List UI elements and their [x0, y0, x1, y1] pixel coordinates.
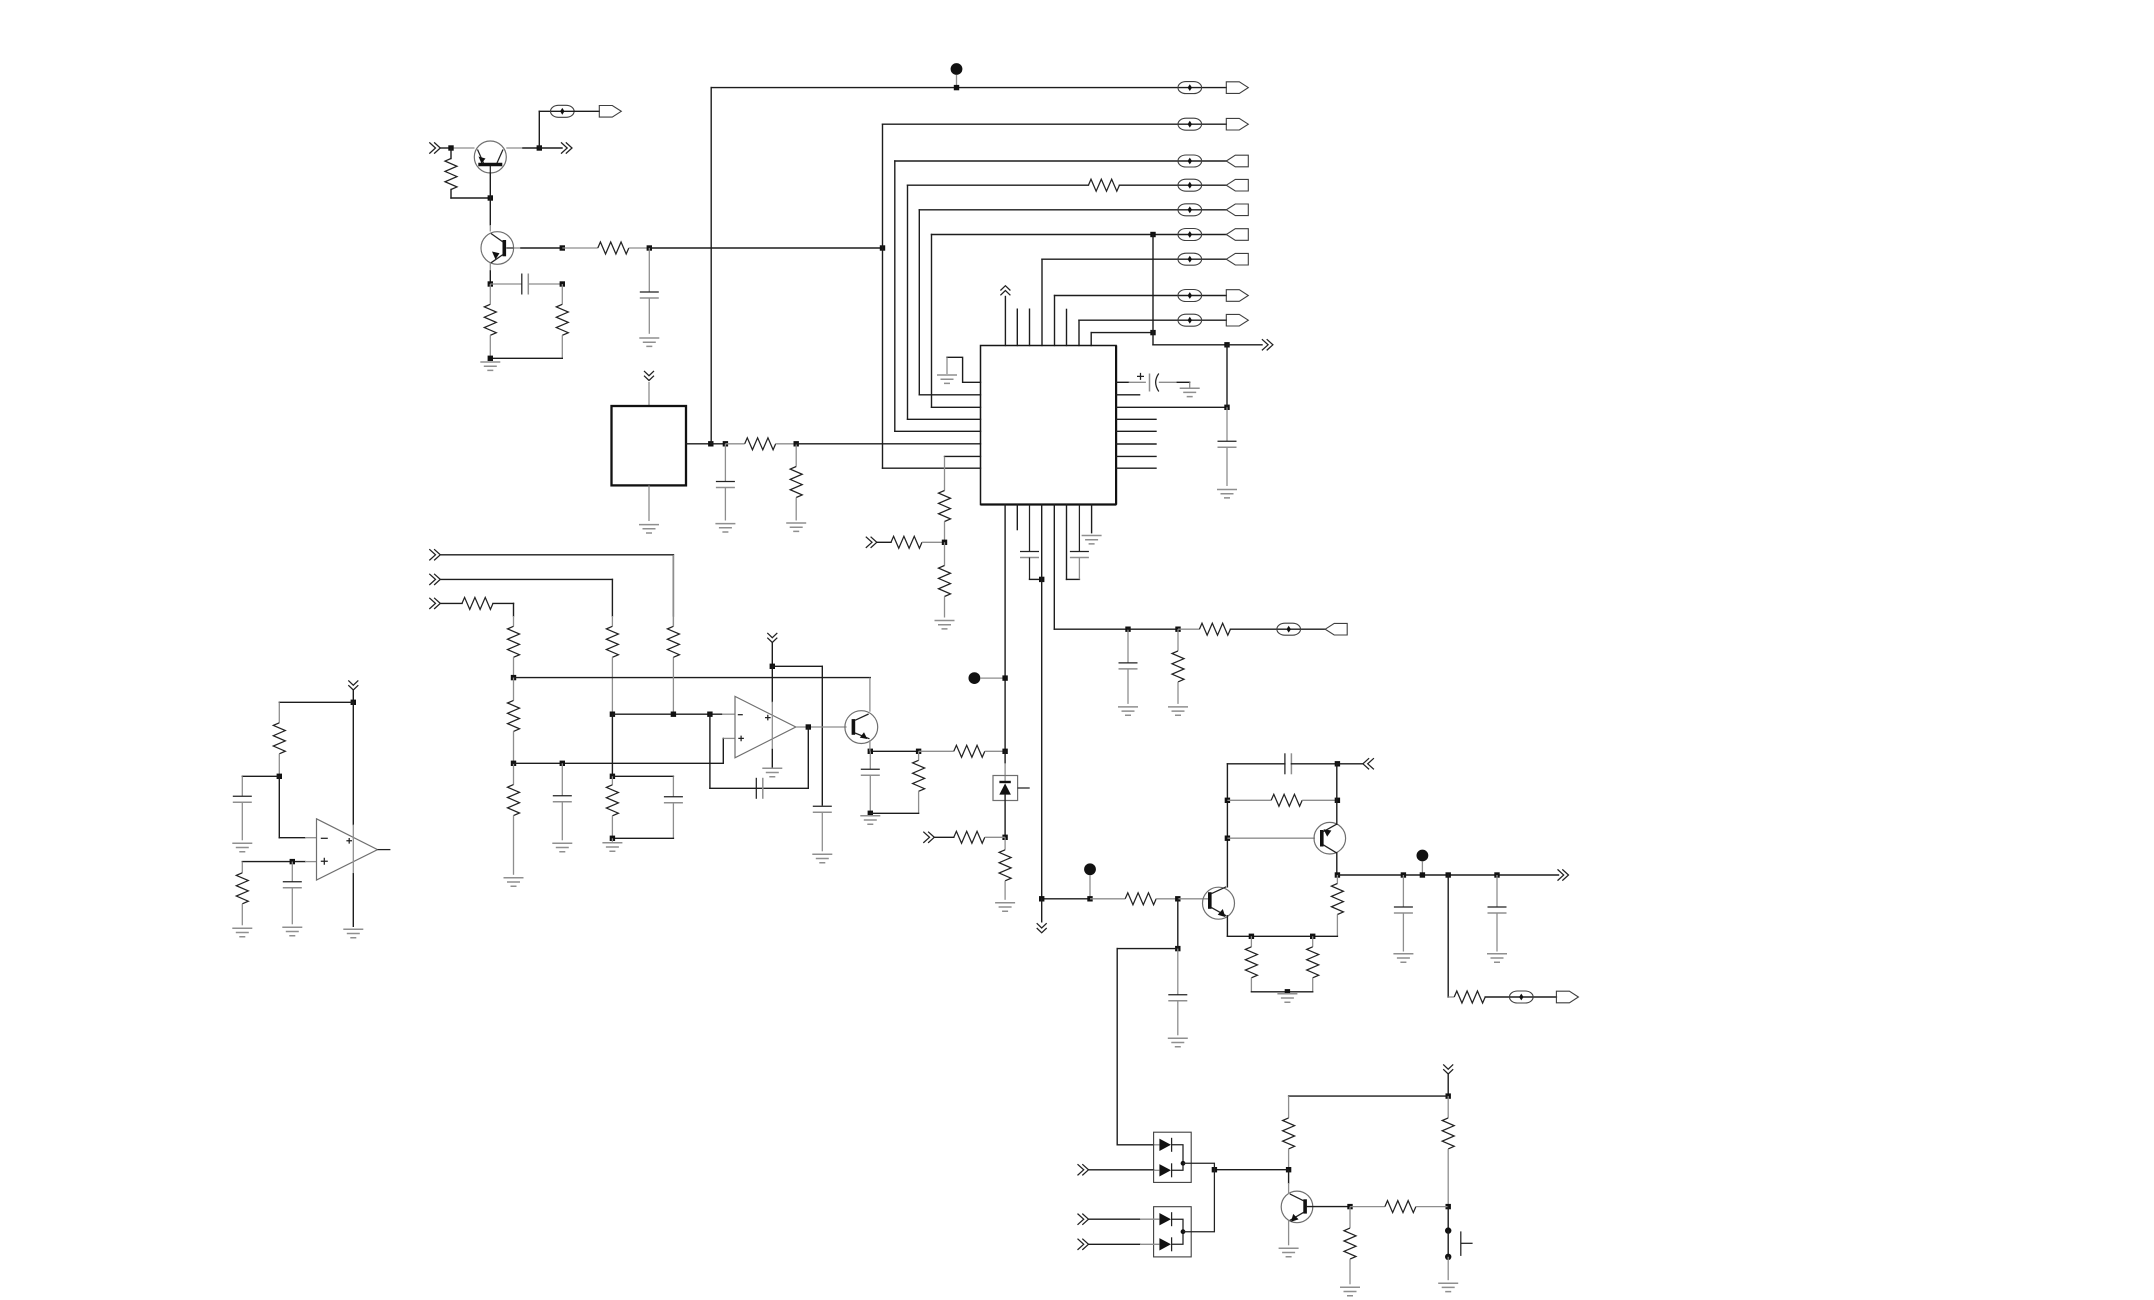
junction — [1494, 872, 1499, 877]
ground — [1393, 954, 1413, 962]
wire top row — [711, 87, 1226, 89]
node marker — [1084, 863, 1096, 875]
output stub — [378, 849, 391, 851]
Q6 emitter — [1288, 1220, 1290, 1245]
plus input wire — [242, 861, 305, 863]
ground — [639, 338, 659, 346]
resistor R22 — [278, 702, 280, 723]
wire cap pair — [1066, 505, 1068, 580]
junction — [1446, 872, 1451, 877]
wire pin row — [945, 455, 981, 457]
junction — [1401, 872, 1406, 877]
wire emitter row — [870, 750, 918, 752]
wire tap down — [1152, 235, 1154, 345]
bus wire row8 — [1054, 296, 1056, 346]
ground — [1168, 707, 1188, 715]
capacitor C8 — [1127, 629, 1129, 663]
net tag oval — [1510, 991, 1534, 1003]
junction — [1347, 1204, 1352, 1209]
wire — [611, 714, 613, 776]
junction — [537, 145, 542, 150]
resistor R10 — [1178, 628, 1199, 630]
wire — [612, 775, 673, 777]
wire Q2 emitter — [489, 263, 491, 271]
ground — [786, 523, 806, 531]
junction — [1249, 934, 1254, 939]
input port >> — [866, 537, 877, 548]
wire to bus — [649, 247, 882, 249]
diode pack D3 — [1154, 1207, 1192, 1257]
ground — [1487, 954, 1507, 962]
Q3 collector — [869, 678, 871, 712]
wire tag to port — [574, 110, 599, 112]
ground — [232, 928, 252, 936]
capacitor C18 — [1402, 875, 1404, 907]
ground — [1438, 1283, 1458, 1291]
junction — [954, 85, 959, 90]
ground — [1118, 707, 1138, 715]
junction — [1150, 330, 1155, 335]
power symbol — [348, 680, 358, 690]
ground — [504, 878, 524, 886]
port connector — [1325, 623, 1347, 635]
ground — [860, 816, 880, 824]
input wire 2 — [440, 578, 612, 580]
wire node to Q2 — [489, 198, 491, 225]
junction — [290, 859, 295, 864]
power symbol — [1041, 899, 1043, 922]
junction — [916, 749, 921, 754]
resistor chain — [944, 456, 946, 490]
resistor R30 — [1288, 1096, 1290, 1118]
output rail — [1337, 874, 1558, 876]
resistor R18 — [513, 763, 515, 784]
junction — [1446, 1093, 1451, 1098]
junction — [723, 441, 728, 446]
ground — [343, 929, 363, 937]
bus wire row4 with resistor — [907, 185, 909, 419]
wire Q1 collector right — [506, 147, 523, 149]
input port >> — [1078, 1164, 1089, 1175]
resistor R19 — [672, 657, 674, 714]
op-amp U2 — [735, 696, 796, 757]
ground — [995, 903, 1015, 911]
junction — [1212, 1167, 1217, 1172]
junction — [1225, 798, 1230, 803]
switch S1 — [1447, 1207, 1449, 1231]
transistor Q6 — [1281, 1191, 1313, 1223]
Q5 emitter up — [1336, 764, 1338, 825]
ground — [552, 843, 572, 851]
plus input rail — [514, 762, 724, 764]
bus wire row7 — [1041, 259, 1043, 345]
bus wire row3 — [894, 161, 896, 431]
wire to port — [1227, 344, 1262, 346]
wire to minus — [278, 776, 280, 837]
main rail down — [1041, 505, 1043, 899]
transistor Q3 — [845, 711, 878, 744]
wire — [1177, 899, 1179, 949]
IC pin stub — [1116, 394, 1140, 396]
wire — [1089, 1169, 1154, 1171]
net tag oval — [1178, 82, 1202, 94]
ground — [762, 768, 782, 776]
resistor R5 — [725, 443, 744, 445]
input port >> — [429, 549, 440, 560]
ground — [480, 362, 500, 370]
wire to port — [1337, 763, 1363, 765]
capacitor C1 — [648, 248, 650, 292]
resistor R8 — [944, 542, 946, 565]
junction — [1224, 405, 1229, 410]
bottom rail — [1227, 935, 1337, 937]
IC pin stub — [1029, 309, 1031, 345]
lead to box — [648, 382, 650, 406]
wire — [772, 665, 822, 667]
resistor R1 — [450, 148, 452, 159]
port connector — [1226, 82, 1248, 94]
wire down — [1447, 875, 1449, 997]
junction — [488, 281, 493, 286]
input port >> — [1078, 1214, 1089, 1225]
resistor R31 — [1447, 1096, 1449, 1118]
resistor R20 — [611, 776, 613, 785]
ground — [1189, 382, 1191, 388]
ground — [1279, 1248, 1299, 1256]
resistor R16 — [508, 626, 520, 657]
wire up to tag — [538, 111, 540, 148]
Q4 collector — [1226, 764, 1228, 887]
input port >> — [923, 832, 934, 843]
junction — [1175, 627, 1180, 632]
wire — [1089, 1243, 1141, 1245]
resistor R11 — [919, 750, 954, 752]
resistor R3 — [489, 284, 491, 304]
transistor Q1 — [474, 141, 506, 173]
resistor R29 — [1448, 996, 1454, 998]
wire — [1226, 345, 1228, 408]
IC pin stub — [1066, 309, 1068, 345]
junction — [806, 724, 811, 729]
junction — [794, 441, 799, 446]
wire — [279, 701, 353, 703]
resistor R6 — [795, 444, 797, 467]
junction — [1039, 577, 1044, 582]
top feedback row — [1227, 763, 1285, 765]
capacitor C6 — [1029, 505, 1031, 552]
capacitor C19 — [1496, 875, 1498, 907]
wire rail — [1042, 898, 1090, 900]
wire box output — [686, 443, 711, 445]
base wire — [1178, 898, 1208, 900]
node marker — [1417, 850, 1429, 862]
junction — [1125, 627, 1130, 632]
wire bus VCC — [710, 88, 712, 444]
IC U1 — [981, 346, 1117, 505]
junction — [868, 749, 873, 754]
junction — [868, 811, 873, 816]
power symbol — [767, 633, 777, 643]
ground — [935, 621, 955, 629]
wire — [1214, 1169, 1288, 1171]
resistor R33 — [1349, 1207, 1351, 1229]
ground pin wire — [947, 357, 981, 382]
wire from cap node — [1116, 949, 1118, 1145]
wire input to Q1 base — [440, 147, 451, 149]
wire pin down — [1053, 505, 1055, 630]
capacitor C10 — [672, 776, 674, 797]
resistor R14 — [611, 579, 613, 616]
junction — [1002, 675, 1007, 680]
capacitor C14 — [241, 776, 243, 796]
port connector — [1556, 991, 1578, 1003]
junction — [511, 761, 516, 766]
junction — [1310, 934, 1315, 939]
capacitor C16 — [1177, 949, 1179, 995]
lead box to ground — [648, 485, 650, 521]
IC pin stub ground — [1091, 505, 1093, 533]
junction — [277, 774, 282, 779]
capacitor C11 — [821, 666, 823, 805]
net tag oval — [551, 105, 575, 117]
resistor R23 — [241, 862, 243, 873]
wire — [1089, 1218, 1141, 1220]
junction — [1420, 872, 1425, 877]
IC pin stub — [1016, 505, 1018, 530]
junction — [488, 195, 493, 200]
wire emitter rail — [490, 357, 562, 359]
junction — [1285, 989, 1290, 994]
junction — [707, 712, 712, 717]
junction — [560, 761, 565, 766]
wire long rail — [514, 677, 871, 679]
input port >> — [1078, 1239, 1089, 1250]
junction — [1225, 836, 1230, 841]
power symbol — [1443, 1064, 1453, 1074]
ground — [937, 375, 957, 383]
input wire 3 — [440, 602, 462, 604]
junction — [1446, 1204, 1451, 1209]
capacitor C9 — [561, 763, 563, 796]
feedback wire — [807, 727, 809, 788]
resistor R17 — [513, 678, 515, 701]
power pin — [1004, 297, 1006, 346]
junction — [942, 540, 947, 545]
wire — [1128, 628, 1178, 630]
IC pin stub — [1016, 309, 1018, 345]
resistor R4 — [561, 284, 563, 304]
wire — [612, 837, 673, 839]
junction — [1335, 872, 1340, 877]
node marker — [969, 672, 981, 684]
IC right pin stubs — [1116, 418, 1156, 420]
wire down — [513, 603, 515, 616]
junction — [610, 774, 615, 779]
feedback wire — [710, 787, 756, 789]
junction — [1286, 1167, 1291, 1172]
junction — [770, 664, 775, 669]
bus wire row2 — [882, 124, 884, 468]
transistor Q5 pnp — [1314, 822, 1346, 854]
wire down — [672, 555, 674, 616]
junction — [1002, 835, 1007, 840]
junction — [448, 145, 453, 150]
resistor R15 — [462, 597, 493, 609]
junction — [1175, 896, 1180, 901]
capacitor C17 — [1284, 753, 1286, 774]
wire — [711, 443, 726, 445]
ground — [232, 843, 252, 851]
power wire — [771, 643, 773, 667]
output port — [599, 106, 621, 118]
resistor R21 — [918, 751, 920, 760]
capacitor C15 — [291, 862, 293, 882]
junction — [1150, 232, 1155, 237]
junction — [351, 700, 356, 705]
ground — [1168, 1038, 1188, 1046]
junction — [511, 675, 516, 680]
bus wire row6 — [931, 235, 933, 408]
ground — [1217, 490, 1237, 498]
power symbol — [644, 371, 654, 381]
resistor R12 — [934, 836, 954, 838]
junction — [647, 245, 652, 250]
zener diode D1 — [1004, 751, 1006, 763]
wire — [870, 812, 918, 814]
resistor R27 — [1250, 936, 1252, 947]
wire — [1251, 991, 1312, 993]
resistor R26 — [1336, 875, 1338, 884]
junction — [1335, 798, 1340, 803]
resistor R32 — [1350, 1206, 1385, 1208]
output wire — [796, 726, 847, 728]
wire Q1 emitter down — [489, 173, 491, 198]
ground — [715, 524, 735, 532]
net tag oval — [1277, 623, 1301, 635]
Q6 collector — [1288, 1170, 1290, 1183]
ground — [639, 525, 659, 533]
capacitor C7 — [1078, 505, 1080, 552]
ground — [1340, 1287, 1360, 1295]
op-amp power pins — [352, 702, 354, 824]
wire Q2 base right — [514, 247, 522, 249]
input port >> — [429, 142, 440, 153]
main net down — [1004, 505, 1006, 752]
wire inner bus — [1090, 333, 1092, 346]
ground — [812, 854, 832, 862]
junction — [1039, 896, 1044, 901]
junction — [671, 712, 676, 717]
junction — [1175, 946, 1180, 951]
oscillator box X1 — [612, 406, 687, 485]
node marker — [951, 63, 963, 75]
output port >> — [561, 142, 572, 153]
junction — [708, 441, 713, 446]
junction — [1335, 761, 1340, 766]
wire to port >> — [539, 147, 562, 149]
input port >> — [429, 574, 440, 585]
junction — [1002, 749, 1007, 754]
capacitor C13 — [869, 751, 871, 769]
base wire — [1307, 1206, 1350, 1208]
polarized capacitor C4 — [1116, 381, 1129, 383]
power wire — [352, 690, 354, 702]
ground — [1082, 536, 1102, 544]
capacitor C2 — [490, 283, 522, 285]
junction — [880, 245, 885, 250]
resistor R25 — [1227, 799, 1271, 801]
power wire — [1447, 1074, 1449, 1096]
op-amp U3 — [317, 819, 378, 880]
junction — [610, 836, 615, 841]
capacitor C12 — [755, 778, 757, 799]
junction — [1087, 896, 1092, 901]
resistor R24 — [1090, 898, 1125, 900]
input port << — [1363, 758, 1374, 769]
bus wire row5 — [918, 210, 920, 395]
minus input wire — [612, 713, 722, 715]
base wire Q5 — [1227, 837, 1315, 839]
input wire 1 — [440, 554, 673, 556]
ground — [282, 927, 302, 935]
junction — [560, 281, 565, 286]
ground lead — [946, 357, 948, 374]
resistor R28 — [1312, 936, 1314, 947]
bus wire row9 — [1078, 320, 1080, 345]
resistor R13 — [1004, 837, 1006, 850]
wire — [1291, 763, 1337, 765]
diode pack D2 — [1154, 1132, 1192, 1182]
capacitor C5 — [1226, 407, 1228, 441]
wire to IC pin — [796, 443, 980, 445]
wire R1 to node — [451, 197, 490, 199]
output port >> — [1558, 869, 1569, 880]
wire — [1289, 1095, 1449, 1097]
Q3 emitter — [869, 740, 871, 751]
junction — [610, 712, 615, 717]
output port >> — [1262, 339, 1273, 350]
resistor R7 — [877, 541, 891, 543]
junction — [488, 356, 493, 361]
IC left pin wires — [919, 394, 980, 396]
Q4 emitter — [1226, 916, 1228, 937]
wire — [242, 775, 279, 777]
wire pin to node — [1116, 406, 1227, 408]
transistor Q4 — [1203, 887, 1235, 919]
junction — [1224, 342, 1229, 347]
ground — [1277, 994, 1297, 1002]
op-amp power pins — [771, 666, 773, 701]
Q5 collector down — [1336, 853, 1338, 875]
junction — [560, 245, 565, 250]
capacitor C3 — [724, 444, 726, 482]
resistor R2 — [562, 247, 598, 249]
resistor R9 — [1177, 629, 1179, 651]
input port >> — [429, 598, 440, 609]
ground — [611, 838, 613, 842]
transistor Q2 — [481, 232, 514, 265]
